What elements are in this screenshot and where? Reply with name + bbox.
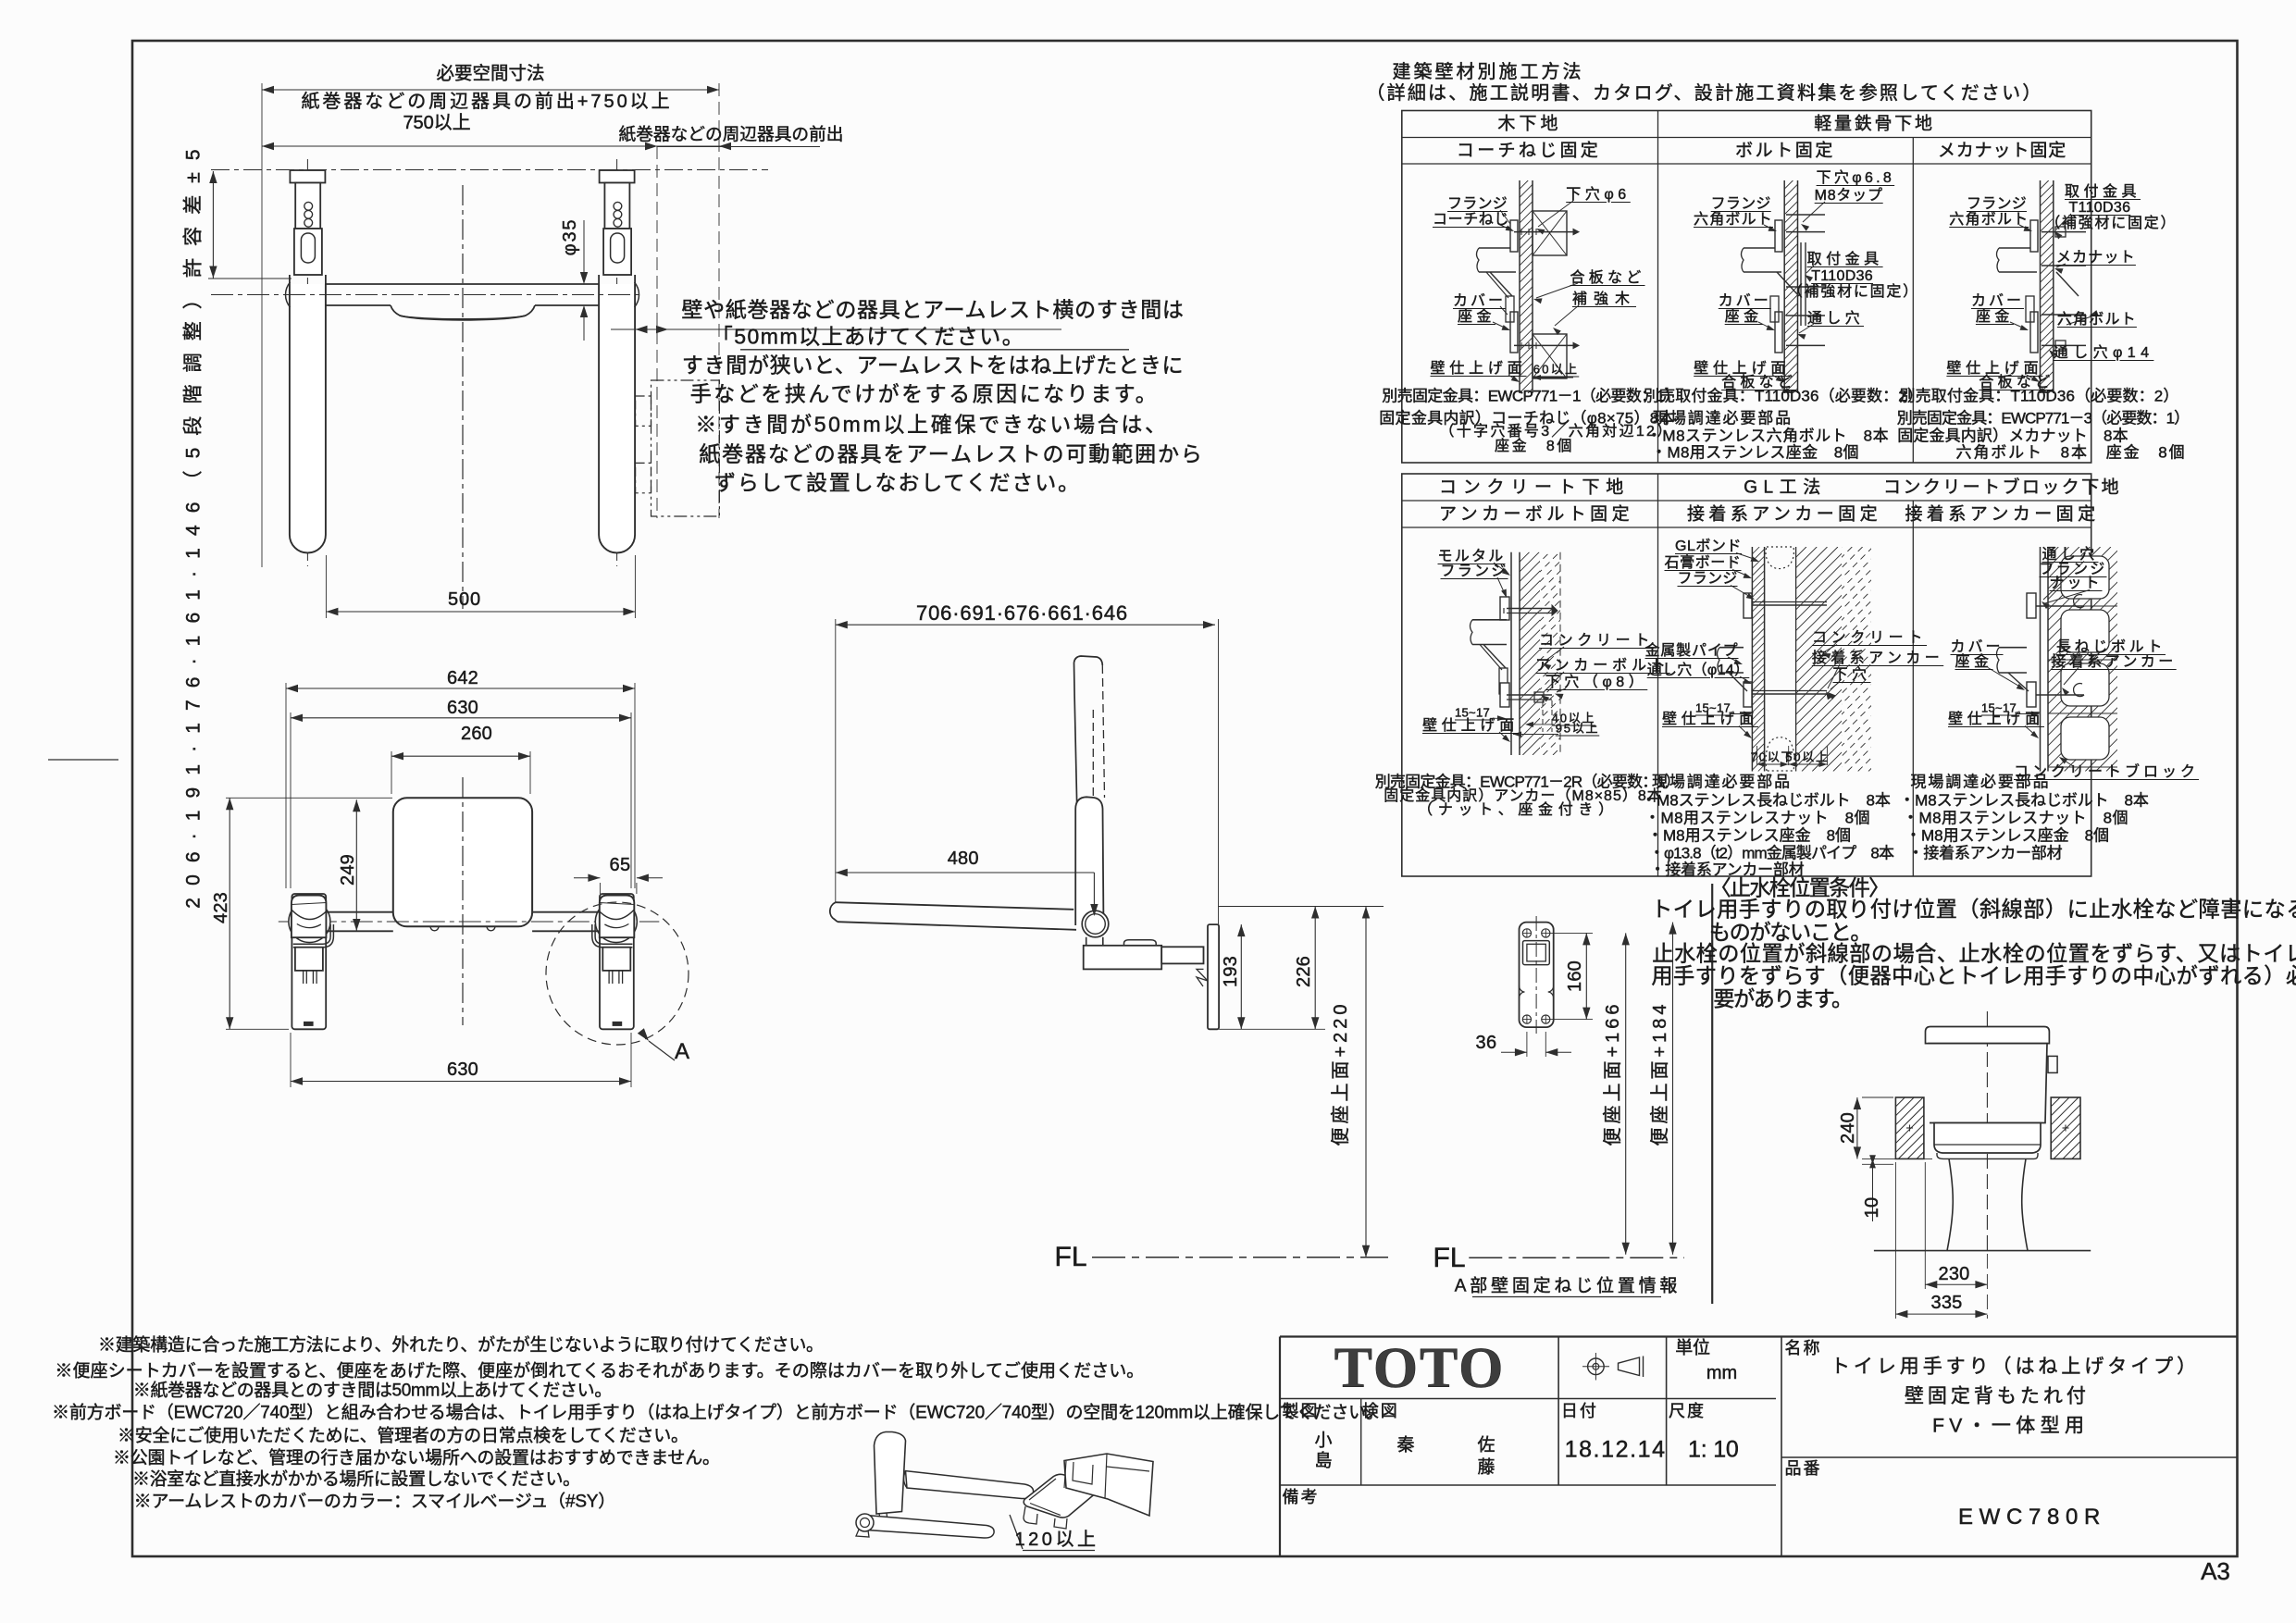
FL line view4 — [1469, 1257, 1684, 1258]
crossbar between posts — [326, 283, 599, 285]
view1 top chain reference line — [211, 169, 768, 171]
gap dim arrows — [645, 142, 657, 150]
view2 dim 249 — [355, 799, 357, 931]
tank handle — [2048, 1056, 2057, 1072]
seat — [1934, 1123, 2041, 1154]
title block frame — [1280, 1335, 2238, 1337]
cell1 bracket diagonal — [1490, 272, 1512, 296]
pivot circle — [289, 901, 330, 943]
hatch block right — [2051, 1097, 2080, 1158]
cell5 flanges — [1744, 593, 1752, 618]
backrest pad top view dip — [391, 305, 535, 320]
cell6 flanges — [2027, 593, 2036, 618]
view3 dim 706-646 — [836, 624, 1215, 626]
cell3 nut blocks — [2055, 227, 2066, 237]
adjuster block — [602, 948, 630, 971]
side notches — [1520, 985, 1525, 998]
cell4 bracket diag — [1483, 645, 1506, 669]
dim 750以上 — [262, 145, 657, 147]
ext line pad top — [226, 797, 392, 799]
cell1 wall strip — [1519, 180, 1520, 393]
dim 500 — [326, 611, 635, 613]
dim 226 — [1314, 907, 1316, 1030]
cell2 bar — [1744, 247, 1781, 249]
divider bar — [1711, 884, 1713, 1304]
left vertical dim 206.. — [212, 171, 214, 279]
cell3 bar — [1999, 247, 2037, 249]
cell6 finish strip — [2040, 547, 2042, 772]
cell2 bracket T110D36 vertical — [1800, 242, 1802, 326]
dim 必要空間寸法 — [262, 89, 719, 91]
bracket top tab — [1124, 940, 1157, 946]
screws 4x — [1522, 929, 1531, 937]
plate centerline — [1535, 916, 1537, 1034]
cell6 labels — [2043, 562, 2084, 601]
left margin registration tick — [48, 759, 118, 761]
slot inner — [1527, 944, 1545, 961]
detail circle A — [546, 902, 689, 1045]
cell4 mortar strip — [1510, 552, 1512, 755]
projection symbol cone — [1619, 1357, 1640, 1376]
pedestal — [1947, 1158, 1953, 1250]
view2 crossbar lines — [326, 911, 393, 913]
post mid section — [294, 229, 322, 275]
view1 post at cx=666.6 cap flange — [600, 170, 635, 183]
ext verticals — [835, 619, 837, 902]
view2 ext verticals for 642/630 — [285, 683, 287, 888]
cell2 wall strip — [1783, 180, 1785, 393]
iso right pad — [1024, 1474, 1098, 1518]
iso wall bracket — [1064, 1454, 1153, 1516]
cell2 labels — [1803, 202, 1825, 222]
adjuster holes — [614, 202, 622, 210]
cell3 wall strip — [2040, 180, 2042, 393]
dim benza+220 — [1365, 907, 1367, 1258]
dim 10 — [1862, 1158, 1932, 1159]
cell4 flange+anchor top — [1500, 597, 1509, 620]
cell1 reinforcement boxes with X — [1533, 211, 1567, 255]
toilet centerline — [1986, 1011, 1988, 1251]
crossbar centerline — [211, 294, 640, 296]
tank lid — [1926, 1027, 2050, 1044]
view2 dim 630 top — [291, 717, 631, 719]
armrest folded up (stadium) — [599, 284, 635, 553]
iso label 120以上 — [1010, 1515, 1023, 1549]
view2 center vertical — [462, 777, 464, 1025]
hatch block left — [1895, 1097, 1924, 1158]
arrow A — [638, 1028, 649, 1041]
plate center slot outer — [1523, 941, 1550, 965]
cell6 bar — [1999, 647, 2027, 649]
view2 backrest pad — [393, 798, 532, 926]
cell4 lower flange + anchor — [1500, 683, 1509, 707]
dim 230 — [1924, 1162, 1926, 1289]
raised armrest hidden edges dashed — [1102, 665, 1104, 798]
view2 dim 423 — [229, 798, 230, 1029]
dim 480 — [836, 872, 1095, 873]
dim benza+184 — [1672, 923, 1674, 1255]
J hook bracket — [595, 924, 632, 944]
view2 lower post at 333.8 — [292, 894, 326, 1029]
ext top y979.5 — [1219, 906, 1384, 908]
armrest folded up (stadium) — [290, 284, 326, 553]
post bottom tick — [613, 1022, 621, 1026]
hinge circles — [1082, 911, 1109, 937]
adjuster block — [295, 948, 323, 971]
cell5 bottom dims 70/60 — [1756, 746, 1758, 765]
cell4 labels — [1494, 563, 1508, 574]
dim 160 — [1550, 932, 1593, 934]
iso near arm — [866, 1516, 994, 1539]
cell1 labels — [1500, 225, 1512, 230]
cell5 labels — [1736, 553, 1756, 561]
post upper tube — [295, 183, 320, 229]
horizontal armrest — [830, 903, 1081, 930]
screw 1 — [1514, 231, 1573, 233]
view1 left post centerline — [306, 159, 308, 566]
post bottom tick — [304, 1022, 313, 1026]
dim 335 — [1894, 1162, 1896, 1319]
view2 dim 630 bottom — [291, 1081, 631, 1083]
cell5 GL bond blobs — [1766, 547, 1793, 569]
A部壁固定ねじ位置情報 — [1472, 1296, 1661, 1298]
cell6 bolts with hook — [2027, 605, 2084, 607]
view2 dim 642 — [286, 688, 635, 689]
crossbar outer hub bulges — [286, 282, 291, 307]
cell5 plasterboard strip — [1751, 547, 1753, 772]
pivot cover cap — [600, 896, 635, 938]
cell3 flange — [2030, 220, 2038, 252]
ext line right dashed x777 — [718, 83, 720, 518]
prongs — [622, 971, 624, 984]
projection symbol circle — [1588, 1358, 1605, 1375]
cell6 block cavities — [2061, 556, 2109, 599]
view2 dim 260 — [391, 755, 530, 757]
view1 right post centerline — [616, 159, 618, 566]
bracket body — [1084, 946, 1162, 970]
arm cover (solid) — [1075, 797, 1103, 930]
dashed drop line x710 — [656, 146, 658, 518]
dim 36 — [1526, 1032, 1528, 1057]
cell2 bolts through wall — [1786, 214, 1825, 216]
wall arm — [1161, 947, 1203, 963]
cell2 flange — [1775, 220, 1782, 252]
pivot circle — [595, 901, 637, 943]
slot — [611, 233, 625, 263]
adjuster holes — [304, 202, 313, 210]
dim 240 — [1856, 1097, 1858, 1158]
cap bowl curve — [292, 910, 327, 920]
cell3 labels — [2019, 225, 2030, 230]
claw below arm — [1197, 969, 1208, 986]
wall plate — [1208, 924, 1219, 1029]
table2 frame — [1402, 474, 2091, 876]
iso backrest pad — [875, 1432, 906, 1515]
view1 center line vertical — [462, 185, 464, 609]
floor line — [1874, 1250, 2091, 1252]
FL line view3 — [1092, 1257, 1388, 1258]
prongs — [303, 971, 304, 984]
iso near hinge cylinder — [856, 1514, 874, 1531]
cell3 bolts — [2042, 231, 2086, 233]
pivot cover cap — [292, 896, 327, 938]
J hook bracket — [293, 924, 330, 944]
50mm gap dim at right — [636, 326, 648, 333]
cell1 flange+screws — [1510, 220, 1518, 252]
ext line left x283 — [261, 83, 263, 567]
tank body — [1928, 1044, 2047, 1123]
cell5 bolts — [1747, 604, 1827, 606]
label 紙巻器などの周辺器具の前出 (right) — [657, 146, 820, 148]
view2 dim 65 — [599, 883, 601, 894]
pad feet — [430, 926, 439, 931]
raised armrest outline solid — [1074, 656, 1103, 665]
seat lower rim — [1937, 1153, 2038, 1158]
cap bowl curve — [600, 910, 635, 920]
cell5 concrete — [1795, 547, 1797, 772]
table1 frame — [1402, 111, 2091, 464]
plate outline — [1520, 923, 1554, 1028]
cell5 bar — [1719, 647, 1744, 649]
cap top band — [600, 903, 635, 905]
view2 crossbar chain line — [279, 921, 660, 923]
bracket neck — [1086, 937, 1087, 946]
view2 lower post at 666.4 — [600, 894, 634, 1029]
iso right pad feet — [1024, 1506, 1037, 1524]
dim benza+166 — [1550, 1019, 1593, 1021]
cell4 bar — [1472, 619, 1507, 621]
view1 post at cx=332.4 cap flange — [290, 170, 325, 183]
cell4 hole depth box — [1542, 700, 1544, 732]
ext bottom y1112.3 — [1219, 1028, 1325, 1030]
post mid section — [603, 229, 631, 275]
cap top band — [292, 903, 327, 905]
slot — [301, 233, 315, 263]
iso far arm — [906, 1471, 1034, 1499]
phi35 leader — [583, 220, 585, 274]
screw 2 — [1514, 344, 1573, 346]
dim 193 — [1240, 924, 1242, 1029]
post upper tube — [604, 183, 629, 229]
paper holder outline (2-dot chain) — [652, 380, 720, 516]
cell1 handrail bar — [1479, 247, 1516, 249]
